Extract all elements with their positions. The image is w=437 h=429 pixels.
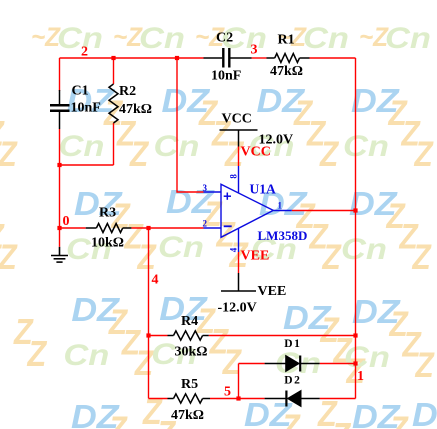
power VCC — [220, 112, 294, 148]
junction R3 node4 — [146, 226, 150, 230]
capacitor C1 — [50, 90, 70, 129]
wire node0 to R3 — [60, 227, 86, 229]
svg-text:1: 1 — [278, 201, 283, 211]
capacitor C2 — [204, 48, 252, 68]
wire R4 row left — [149, 335, 168, 337]
resistor R5 — [168, 394, 211, 403]
resistor R3 — [86, 224, 132, 233]
wire node2 top horizontal — [60, 57, 204, 59]
svg-text:8: 8 — [229, 174, 239, 179]
svg-text:U1A: U1A — [250, 182, 276, 197]
svg-text:30kΩ: 30kΩ — [175, 345, 208, 360]
power VEE — [218, 273, 287, 316]
resistor R2 — [109, 84, 118, 123]
junction node4 R4 — [146, 333, 150, 337]
wire D1 right — [320, 363, 356, 365]
junction D1 rail — [353, 361, 357, 365]
junction output rail — [353, 208, 357, 212]
svg-text:10nF: 10nF — [211, 69, 241, 84]
svg-text:47kΩ: 47kΩ — [171, 408, 204, 423]
wire left rail to node 0 — [59, 165, 61, 228]
svg-text:C1: C1 — [72, 84, 89, 99]
wire R5 row left — [149, 398, 168, 400]
wire VEE red segment — [238, 252, 240, 273]
wire D1 left — [239, 363, 265, 365]
wire left rail below C1 — [59, 129, 61, 165]
svg-text:R5: R5 — [181, 377, 198, 392]
junction node2-plus branch — [175, 56, 179, 60]
wire R4 row right — [209, 335, 356, 337]
resistor R1 — [267, 54, 310, 63]
svg-text:VCC: VCC — [241, 145, 271, 160]
svg-text:2: 2 — [81, 45, 88, 60]
junction R4 rail — [353, 333, 357, 337]
ground — [51, 247, 68, 262]
wire D2 right — [320, 398, 356, 400]
junction node2-R2 — [111, 56, 115, 60]
wire R1 to right rail — [310, 57, 356, 59]
wire R5 to node5 — [210, 398, 265, 400]
svg-text:4: 4 — [228, 247, 238, 252]
wire VCC red segment — [238, 147, 240, 167]
wire node4 vertical — [148, 228, 150, 399]
wire node5 vertical to D1 row — [238, 364, 240, 399]
svg-text:VEE: VEE — [258, 284, 287, 299]
svg-text:4: 4 — [152, 272, 159, 287]
junction node 0 — [57, 226, 61, 230]
svg-text:VCC: VCC — [222, 112, 252, 127]
wire right rail — [355, 58, 357, 399]
svg-text:10nF: 10nF — [71, 101, 101, 116]
wire branch to plus input — [177, 58, 204, 192]
svg-text:R2: R2 — [119, 84, 136, 99]
diode D2 — [265, 391, 320, 407]
wire R3 to minus input — [131, 227, 203, 229]
junction node 5 — [236, 396, 240, 400]
svg-text:-12.0V: -12.0V — [218, 301, 257, 316]
svg-text:R4: R4 — [181, 314, 198, 329]
diode D1 — [265, 356, 320, 372]
wire node3 segment C2 to R1 — [252, 57, 267, 59]
wire node0 ground red stub — [59, 228, 61, 247]
svg-text:LM358D: LM358D — [258, 228, 308, 243]
svg-text:3: 3 — [251, 43, 258, 58]
svg-text:VEE: VEE — [241, 249, 270, 264]
svg-text:1: 1 — [357, 369, 364, 384]
svg-text:R3: R3 — [99, 206, 116, 221]
svg-text:5: 5 — [224, 385, 231, 400]
wire R2 bottom lead — [113, 123, 115, 165]
svg-text:D2: D2 — [284, 375, 301, 387]
svg-text:47kΩ: 47kΩ — [270, 64, 303, 79]
op-amp U1A — [204, 166, 292, 252]
svg-text:10kΩ: 10kΩ — [91, 236, 124, 251]
wire loop bottom — [60, 164, 114, 166]
wire left rail upper — [59, 58, 61, 91]
svg-text:2: 2 — [203, 219, 208, 229]
svg-text:3: 3 — [203, 183, 208, 193]
junction loop bottom — [57, 163, 61, 167]
svg-text:C2: C2 — [216, 31, 233, 46]
wire R2 top lead — [113, 58, 115, 84]
svg-text:D1: D1 — [284, 338, 301, 350]
svg-text:R1: R1 — [278, 33, 295, 48]
resistor R4 — [168, 331, 209, 340]
wire output to right rail — [292, 210, 356, 212]
svg-text:47kΩ: 47kΩ — [119, 102, 152, 117]
svg-text:0: 0 — [63, 214, 70, 229]
